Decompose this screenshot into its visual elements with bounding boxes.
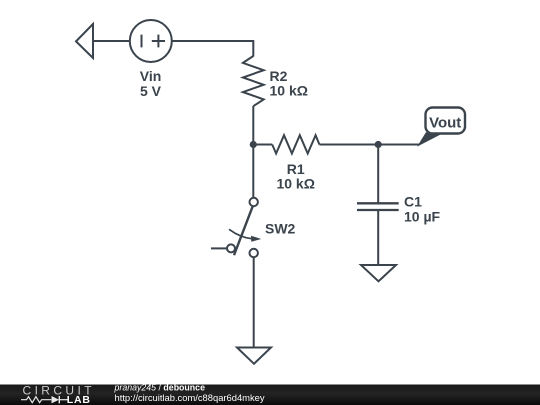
ground GND (SW2) <box>237 348 271 364</box>
wire <box>93 40 131 42</box>
footer text <box>114 383 265 403</box>
svg-text:Vin: Vin <box>140 68 162 84</box>
svg-text:Vout: Vout <box>429 114 461 131</box>
svg-text:LAB: LAB <box>67 394 91 405</box>
svg-text:10 µF: 10 µF <box>404 208 441 224</box>
label Vin 5 V <box>140 68 162 99</box>
svg-text:5 V: 5 V <box>140 83 162 99</box>
footer bar <box>0 385 540 405</box>
wire <box>377 210 379 265</box>
wire <box>172 41 254 57</box>
resistor R2 <box>243 56 264 106</box>
label SW2 <box>265 221 296 237</box>
resistor R1 <box>272 135 319 153</box>
voltage source Vin <box>130 20 172 62</box>
svg-text:SW2: SW2 <box>265 221 296 237</box>
node B <box>375 141 382 148</box>
label R1 10 kOhm <box>276 161 314 192</box>
label R2 10 kOhm <box>270 68 308 99</box>
label C1 10 uF <box>404 193 441 224</box>
ground (source negative terminal) <box>76 24 93 58</box>
svg-text:10 kΩ: 10 kΩ <box>276 176 314 192</box>
svg-text:C1: C1 <box>404 193 422 209</box>
wire <box>377 145 379 204</box>
wire <box>252 106 254 198</box>
ground GND (C1) <box>361 265 396 281</box>
wire <box>253 257 255 347</box>
net flag Vout <box>419 108 466 146</box>
svg-text:http://circuitlab.com/c88qar6d: http://circuitlab.com/c88qar6d4mkey <box>115 392 265 403</box>
node A <box>250 141 257 148</box>
svg-text:10 kΩ: 10 kΩ <box>270 83 308 99</box>
capacitor C1 <box>357 203 399 210</box>
wire <box>319 144 419 146</box>
CircuitLab logo <box>21 384 95 405</box>
wire <box>253 144 272 146</box>
switch SW2 <box>211 198 261 257</box>
